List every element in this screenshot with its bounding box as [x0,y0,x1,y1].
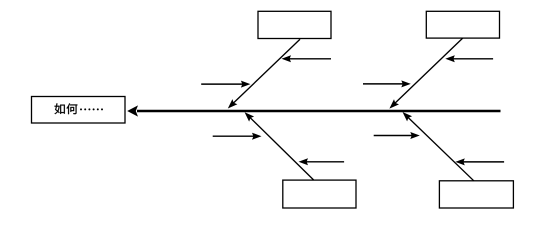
problem box (head of fishbone) [32,97,126,124]
main spine line [137,110,501,113]
bottom-right branch line with arrowhead [403,112,474,181]
spine arrowhead [127,105,138,116]
bottom-right category box [439,181,513,208]
top-left lower cause arrow (right-pointing) [201,81,250,88]
bottom-left lower cause arrow (left-pointing) [299,158,345,165]
top-left upper cause arrow (left-pointing) [282,55,332,62]
bottom-left upper cause arrow (right-pointing) [213,133,262,140]
top-right upper cause arrow (left-pointing) [445,55,493,62]
bottom-left category box [283,180,356,208]
bottom-left branch line with arrowhead [245,112,314,180]
label text 如何…… [55,103,103,114]
top-right lower cause arrow (right-pointing) [363,80,411,87]
top-left category box [258,11,331,38]
top-right branch line with arrowhead [389,38,462,109]
top-right category box [426,11,499,38]
top-left branch line with arrowhead [228,39,300,108]
bottom-right lower cause arrow (left-pointing) [455,158,504,165]
bottom-right upper cause arrow (right-pointing) [374,132,420,139]
